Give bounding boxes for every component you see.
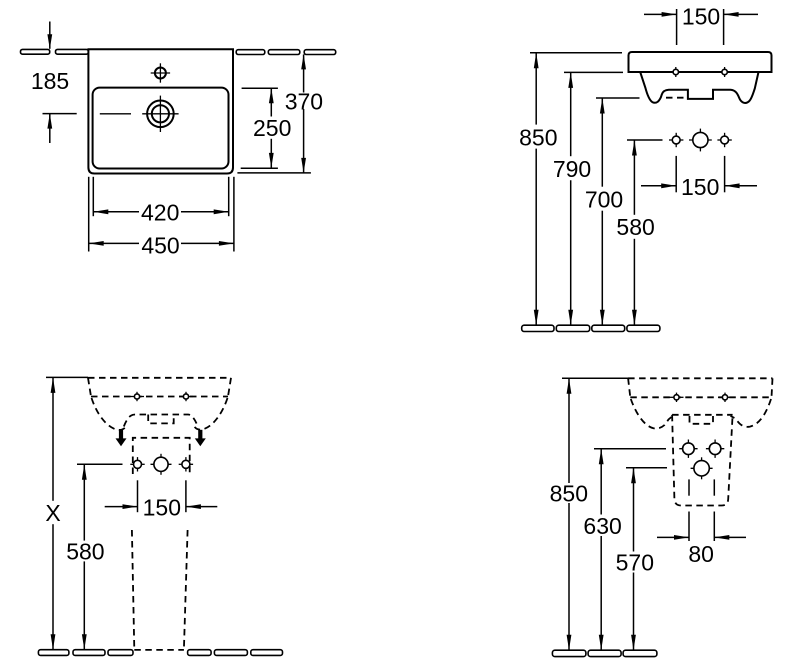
floor tile segment 1 (552, 650, 586, 656)
basin outer outline (88, 49, 233, 173)
floor tile segment 2 (73, 650, 105, 656)
mounting bolt hole left (130, 457, 144, 471)
dashed basin left rim edge (88, 378, 91, 397)
dashed left curtain curve (92, 398, 126, 430)
rim fixing hole left (130, 392, 144, 401)
dashed right curtain curve (731, 399, 772, 427)
hidden edge dash under body (666, 97, 684, 99)
extension line 580 (77, 463, 123, 465)
wall tile segment 2 (56, 49, 89, 54)
extension line 790 (564, 71, 623, 73)
floor tile segment 2 (556, 325, 589, 331)
floor tile segment 1 (38, 650, 69, 656)
rim fixing hole right (718, 67, 732, 77)
pedestal column dashed outline (672, 415, 733, 506)
dimension 150 top (644, 3, 758, 45)
dashed rim top edge (628, 377, 772, 379)
dashed basin right rim edge (228, 378, 231, 397)
mounting hole left (669, 133, 683, 147)
floor tile segment 3 (108, 650, 133, 656)
floor tile segment 1 (522, 325, 554, 331)
dashed rim left edge (628, 378, 630, 397)
mounting bolt hole right (179, 457, 193, 471)
svg-text:150: 150 (143, 494, 181, 520)
wall tile segment 4 (268, 50, 300, 55)
pedestal lower dashed left edge (132, 530, 134, 650)
dashed inner shelf curve (124, 415, 198, 427)
wall tile segment 5 (304, 50, 336, 55)
rim fixing hole right (179, 392, 193, 401)
svg-text:X: X (45, 500, 60, 526)
floor tile segment 2 (588, 650, 621, 656)
faucet hole crosshair (151, 63, 170, 82)
dimension 420 (93, 177, 228, 226)
dimension 570 (616, 468, 654, 650)
dimension 630 (583, 449, 621, 651)
extension line 630 (594, 448, 666, 450)
svg-text:450: 450 (141, 233, 179, 259)
pedestal lower dashed right edge (184, 530, 188, 650)
floor tile segment 6 (251, 650, 283, 656)
rim fixing hole left (669, 67, 683, 77)
wall tile segment 1 (21, 49, 50, 54)
svg-text:250: 250 (253, 115, 291, 141)
dashed overflow notch (690, 416, 714, 424)
svg-text:80: 80 (688, 541, 714, 567)
dimension 250 (241, 88, 292, 168)
dashed left curtain curve (631, 399, 672, 429)
bolt hole right (706, 440, 724, 458)
svg-text:700: 700 (585, 187, 623, 213)
pedestal dashed bottom edge (134, 649, 184, 651)
svg-text:370: 370 (285, 88, 323, 114)
dashed rim bottom line (630, 396, 771, 398)
mounting direction arrow left (116, 430, 127, 447)
pedestal column dashed top edge (672, 414, 733, 416)
svg-text:580: 580 (616, 214, 654, 240)
wall tile segment 3 (236, 50, 265, 55)
dimension 700 (585, 98, 623, 325)
dimension 850 (550, 378, 588, 650)
dashed overflow notch (148, 415, 174, 424)
dimension 150 bottom (641, 156, 757, 200)
extension line 850 (562, 377, 629, 379)
rim fixing hole right (718, 393, 732, 402)
mounting direction arrow right (195, 430, 206, 447)
drain hole (691, 457, 713, 479)
svg-text:580: 580 (66, 538, 104, 564)
drain with overflow circles (142, 96, 178, 132)
svg-text:570: 570 (616, 550, 654, 576)
svg-text:850: 850 (519, 125, 557, 151)
dimension 850 (519, 53, 557, 325)
svg-text:420: 420 (141, 199, 179, 225)
dimension 80 (657, 479, 746, 567)
floor tile segment 3 (592, 325, 625, 331)
drain hole center (151, 454, 172, 475)
floor tile segment 3 (623, 650, 657, 656)
VIEW 3: installation front view with pedestal (bottom-left) (38, 377, 282, 655)
extension line 580 (627, 139, 663, 141)
extension line 700 (596, 97, 640, 99)
dashed basin top edge (88, 377, 231, 379)
dimension 450 (89, 177, 234, 259)
basin rim band (629, 52, 772, 72)
mounting hole right (717, 133, 731, 147)
basin body profile (640, 72, 758, 103)
svg-text:150: 150 (681, 174, 719, 200)
dimension 580 (66, 464, 104, 649)
dimension 370 (237, 54, 323, 172)
bolt hole left (679, 440, 697, 458)
rim fixing hole left (670, 393, 684, 402)
dimension 185 (31, 22, 77, 144)
floor tile segment 5 (214, 650, 247, 656)
floor tile segment 4 (188, 650, 212, 656)
dimension 580 (616, 140, 654, 325)
drain centerline (100, 113, 131, 115)
svg-text:630: 630 (583, 513, 621, 539)
dashed rim right edge (772, 378, 773, 397)
drain hole center (689, 129, 712, 152)
VIEW 4: side view with pedestal (bottom-right) (550, 378, 773, 656)
dimension 150 (105, 480, 218, 520)
svg-text:790: 790 (553, 156, 591, 182)
svg-text:150: 150 (682, 3, 720, 29)
pedestal upper dashed outline (133, 438, 190, 474)
floor tile segment 4 (627, 325, 660, 331)
dashed rim bottom line (91, 396, 228, 398)
svg-text:850: 850 (550, 481, 588, 507)
basin inner bowl outline (93, 88, 229, 169)
dimension 790 (553, 72, 591, 325)
VIEW 1: top view of basin (top-left) (21, 22, 336, 259)
extension line 570 (626, 467, 667, 469)
svg-text:185: 185 (31, 68, 69, 94)
VIEW 2: wall-mounted front view (top-right) (519, 3, 771, 331)
dashed right curtain curve (195, 398, 228, 430)
extension line 850 (530, 52, 622, 54)
dimension X (45, 377, 60, 649)
extension line X (46, 376, 88, 378)
